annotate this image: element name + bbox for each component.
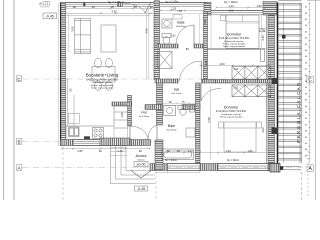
hol door arc 2 xyxy=(156,126,158,141)
svg-text:1.80: 1.80 xyxy=(247,149,253,153)
bed top dormitor xyxy=(226,15,259,49)
svg-text:-0.45: -0.45 xyxy=(137,187,145,191)
svg-text:2.80: 2.80 xyxy=(77,149,83,153)
svg-text:1.90: 1.90 xyxy=(120,112,124,118)
pergola posts xyxy=(282,35,286,39)
porch steps outline xyxy=(111,146,156,184)
washing machine baie top xyxy=(162,19,172,28)
corridor door arc xyxy=(180,61,202,81)
svg-text:2.95: 2.95 xyxy=(145,28,149,34)
svg-text:Pardoseala: parchet: Pardoseala: parchet xyxy=(224,40,244,43)
dashed line below left wall xyxy=(62,147,64,200)
interior dim lines living right xyxy=(69,9,149,79)
svg-text:hg = 1.95cm: hg = 1.95cm xyxy=(108,0,125,4)
svg-text:1.43: 1.43 xyxy=(228,4,234,8)
lower baie tub xyxy=(162,149,194,160)
toilet baie top xyxy=(162,34,171,45)
lower baie sink xyxy=(164,106,176,116)
bottom room dim xyxy=(162,152,270,154)
svg-text:S=25.10mp V=58m³ H=2.80m: S=25.10mp V=58m³ H=2.80m xyxy=(86,79,118,82)
left exterior wall xyxy=(59,3,66,147)
top wall baie section xyxy=(153,3,207,7)
svg-text:3.41: 3.41 xyxy=(204,60,208,66)
lower dormitor door arc xyxy=(200,83,202,101)
sink xyxy=(69,127,80,137)
svg-text:.90: .90 xyxy=(98,149,102,153)
grid bubble A left xyxy=(17,165,22,171)
corner legend top-left xyxy=(40,2,50,7)
svg-text:.90: .90 xyxy=(138,149,142,153)
svg-text:.46: .46 xyxy=(133,5,137,9)
step pier between baie and dormitor top xyxy=(204,3,211,16)
-0.45 top-left label xyxy=(43,13,57,19)
sofa xyxy=(74,18,90,53)
-0.45 bottom label xyxy=(135,186,148,191)
svg-text:S=4.15mp: S=4.15mp xyxy=(139,116,150,118)
svg-text:1.25: 1.25 xyxy=(171,6,177,10)
top wall living section (window band) xyxy=(66,3,154,7)
svg-text:.90: .90 xyxy=(176,149,180,153)
baie top bottom wall xyxy=(157,44,204,48)
page margin line left xyxy=(3,0,5,200)
svg-text:hp = 30cm: hp = 30cm xyxy=(227,158,239,162)
sas bottom wall xyxy=(145,105,200,110)
svg-text:Sas: Sas xyxy=(174,88,180,92)
svg-text:4.00: 4.00 xyxy=(219,62,225,66)
svg-text:Tavan: vopsea lavabila: Tavan: vopsea lavabila xyxy=(223,46,246,48)
svg-text:3.62: 3.62 xyxy=(234,87,239,90)
kitchen/hol wall xyxy=(128,96,132,127)
svg-text:PERGOLA CALCAN: PERGOLA CALCAN xyxy=(296,81,301,143)
svg-text:hp = 30cm: hp = 30cm xyxy=(165,158,177,162)
svg-text:1.40: 1.40 xyxy=(117,149,123,153)
svg-text:Pardoseala: gresie: Pardoseala: gresie xyxy=(93,81,112,84)
svg-text:Tavan: vopsea lavabila: Tavan: vopsea lavabila xyxy=(91,87,114,89)
middle vertical wall xyxy=(154,1,163,164)
right dashed property line xyxy=(307,150,309,198)
bottom exterior wall right section xyxy=(150,164,278,171)
svg-text:hg = 30cm: hg = 30cm xyxy=(224,0,239,4)
bottom wall living section xyxy=(61,140,151,146)
svg-text:Dormitor: Dormitor xyxy=(227,33,242,37)
svg-text:1.80: 1.80 xyxy=(256,4,262,8)
long wall y79-83 to right wall xyxy=(202,80,279,84)
4.00 dim corridor xyxy=(200,65,270,67)
dormitor top interior face lines xyxy=(211,15,262,48)
shower corridor xyxy=(158,52,173,69)
grid bubble C left xyxy=(17,76,22,82)
hol door arc 1 xyxy=(129,126,131,140)
svg-text:1.40: 1.40 xyxy=(225,149,231,153)
baie top dim xyxy=(160,10,204,12)
bed lower dormitor xyxy=(219,122,262,152)
svg-text:Finisaj: vopsea lavabila: Finisaj: vopsea lavabila xyxy=(220,116,243,118)
svg-text:S=4.05mp: S=4.05mp xyxy=(176,26,187,28)
kitchen counter xyxy=(66,105,128,140)
entry right wall chunk xyxy=(155,140,163,170)
svg-text:1.62: 1.62 xyxy=(170,34,176,38)
svg-text:Acces: Acces xyxy=(136,153,147,158)
top wall dormitor section (recessed) xyxy=(211,11,266,15)
svg-text:Bucatarie+Living: Bucatarie+Living xyxy=(86,73,119,78)
svg-text:2.30: 2.30 xyxy=(261,35,265,41)
svg-text:.60: .60 xyxy=(166,149,170,153)
svg-text:.46: .46 xyxy=(149,5,153,9)
hol upper wall segment xyxy=(112,102,132,106)
svg-text:2.98: 2.98 xyxy=(207,117,211,123)
wall between baie/corridor and dormitor top xyxy=(204,12,208,79)
svg-text:Dormitor: Dormitor xyxy=(224,106,239,110)
svg-text:S=12.20mp V=29m³ H=2.80m: S=12.20mp V=29m³ H=2.80m xyxy=(216,110,247,113)
svg-text:Baie: Baie xyxy=(168,124,175,128)
dormitor top bottom partition xyxy=(208,48,267,61)
svg-text:S=4.20mp: S=4.20mp xyxy=(166,130,177,132)
chairs xyxy=(95,58,113,90)
radiator top dormitor xyxy=(260,29,266,32)
svg-text:.80: .80 xyxy=(185,47,189,51)
svg-text:Hol: Hol xyxy=(141,111,147,115)
svg-text:.90: .90 xyxy=(72,5,76,9)
svg-text:C: C xyxy=(308,78,312,84)
svg-text:S=1.10mp: S=1.10mp xyxy=(171,93,182,95)
wall lower baie / dormitor xyxy=(196,83,201,164)
living bottom interior dim xyxy=(62,148,150,150)
svg-text:hp = 1.50m: hp = 1.50m xyxy=(165,0,178,4)
door arc top living xyxy=(123,3,145,13)
wall piece y79 left xyxy=(155,79,178,83)
grid bubble B left xyxy=(17,139,22,145)
top dim line living xyxy=(65,7,153,9)
svg-text:1.40: 1.40 xyxy=(187,149,193,153)
grid bubble A right xyxy=(307,165,313,172)
hol bottom wall piece xyxy=(100,138,130,146)
coffee table xyxy=(101,25,116,52)
bottom right corner block xyxy=(270,164,280,173)
page grid line x14 xyxy=(13,0,15,200)
lower baie cabinet xyxy=(186,128,195,137)
svg-text:2.30: 2.30 xyxy=(203,19,207,25)
svg-text:7.85: 7.85 xyxy=(177,9,183,13)
svg-text:exterior: exterior xyxy=(137,159,145,162)
grid bubble C right xyxy=(307,76,313,83)
right exterior wall xyxy=(263,2,278,171)
svg-text:±0.00: ±0.00 xyxy=(137,163,146,167)
right page edge line xyxy=(315,0,317,200)
svg-text:3.95: 3.95 xyxy=(71,26,75,32)
dorm top dim xyxy=(216,7,266,9)
svg-text:S=14.70mp V=36m³ H=2.80m: S=14.70mp V=36m³ H=2.80m xyxy=(219,37,250,40)
svg-text:3.41: 3.41 xyxy=(228,9,234,13)
svg-text:3.00: 3.00 xyxy=(261,127,265,133)
svg-text:-0.45: -0.45 xyxy=(46,15,54,19)
rotated dims xyxy=(71,19,265,133)
entrance arrow xyxy=(131,171,151,179)
svg-text:B: B xyxy=(18,140,21,145)
door arc baie top xyxy=(176,25,194,44)
svg-text:Pardoseala: parchet: Pardoseala: parchet xyxy=(221,113,241,116)
svg-text:.46: .46 xyxy=(91,5,95,9)
dining table xyxy=(92,67,115,83)
svg-text:3.02: 3.02 xyxy=(234,68,239,71)
stove xyxy=(93,128,104,139)
svg-text:Baie: Baie xyxy=(177,21,184,25)
grid line C xyxy=(22,78,306,80)
lower baie toilet xyxy=(178,106,195,116)
grid line A xyxy=(22,167,306,169)
grid line B xyxy=(22,141,160,143)
right dimension line xyxy=(308,2,310,163)
